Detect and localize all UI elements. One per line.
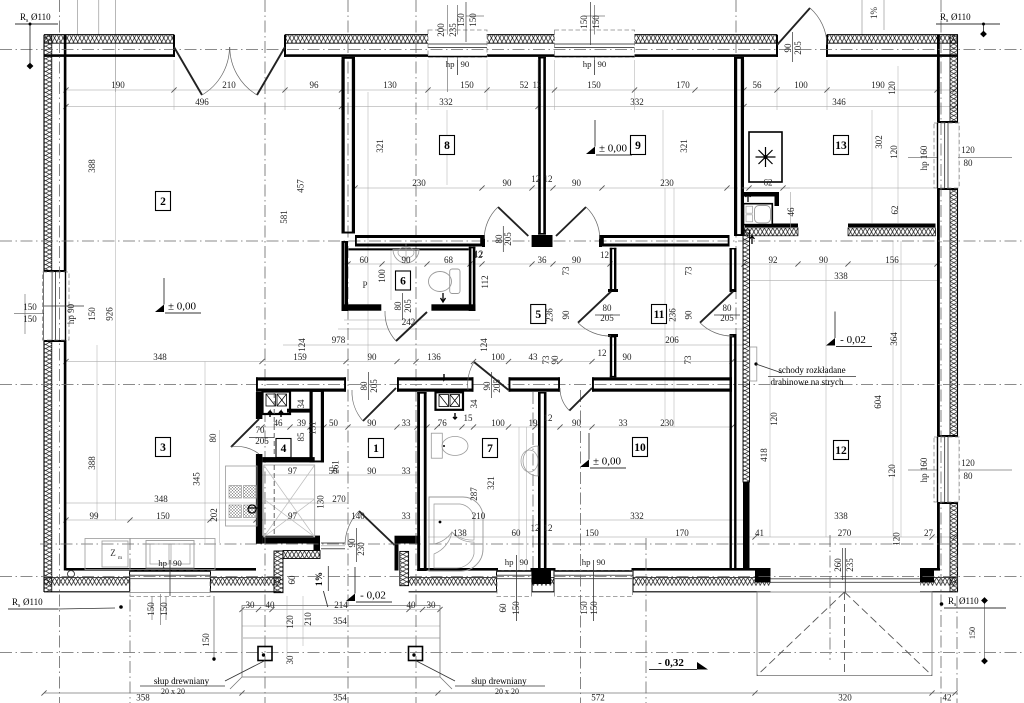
svg-text:100: 100 bbox=[794, 80, 808, 90]
svg-text:150: 150 bbox=[585, 528, 599, 538]
svg-text:Z: Z bbox=[110, 548, 116, 558]
svg-text:40: 40 bbox=[266, 600, 276, 610]
svg-text:242: 242 bbox=[402, 317, 416, 327]
svg-text:205: 205 bbox=[403, 299, 413, 313]
svg-text:100: 100 bbox=[377, 269, 387, 283]
svg-text:Ø110: Ø110 bbox=[31, 12, 51, 22]
svg-text:99: 99 bbox=[90, 511, 100, 521]
svg-text:150: 150 bbox=[579, 601, 589, 615]
svg-text:205: 205 bbox=[600, 313, 614, 323]
svg-text:205: 205 bbox=[793, 41, 803, 55]
svg-text:± 0,00: ± 0,00 bbox=[168, 301, 197, 313]
svg-text:332: 332 bbox=[630, 511, 644, 521]
svg-text:90: 90 bbox=[173, 558, 182, 568]
svg-text:205: 205 bbox=[720, 313, 734, 323]
svg-text:62: 62 bbox=[764, 178, 773, 188]
svg-text:321: 321 bbox=[375, 139, 385, 153]
svg-text:12: 12 bbox=[544, 413, 553, 423]
svg-text:120: 120 bbox=[892, 532, 902, 546]
svg-text:97: 97 bbox=[288, 511, 298, 521]
svg-text:hp: hp bbox=[446, 59, 455, 69]
svg-text:90: 90 bbox=[520, 557, 529, 567]
svg-text:90: 90 bbox=[367, 418, 377, 428]
svg-text:364: 364 bbox=[889, 332, 899, 346]
svg-text:52: 52 bbox=[520, 80, 529, 90]
svg-text:138: 138 bbox=[453, 528, 467, 538]
svg-text:90: 90 bbox=[572, 255, 582, 265]
svg-text:150: 150 bbox=[460, 80, 474, 90]
svg-text:60: 60 bbox=[512, 528, 522, 538]
svg-text:96: 96 bbox=[310, 80, 320, 90]
svg-text:30: 30 bbox=[285, 655, 295, 665]
svg-text:90: 90 bbox=[461, 59, 470, 69]
svg-text:236: 236 bbox=[668, 308, 678, 322]
svg-text:345: 345 bbox=[192, 472, 202, 486]
svg-text:90: 90 bbox=[561, 310, 571, 320]
svg-text:205: 205 bbox=[369, 379, 379, 393]
svg-text:338: 338 bbox=[834, 511, 848, 521]
svg-text:12: 12 bbox=[474, 249, 483, 259]
svg-text:39: 39 bbox=[297, 418, 307, 428]
svg-text:33: 33 bbox=[402, 418, 412, 428]
svg-text:42: 42 bbox=[943, 693, 952, 703]
svg-text:131: 131 bbox=[307, 421, 317, 435]
svg-text:321: 321 bbox=[679, 139, 689, 153]
svg-text:170: 170 bbox=[676, 80, 690, 90]
svg-text:130: 130 bbox=[315, 495, 325, 509]
svg-text:346: 346 bbox=[832, 97, 846, 107]
svg-text:270: 270 bbox=[838, 528, 852, 538]
svg-text:50: 50 bbox=[329, 418, 339, 428]
svg-text:90: 90 bbox=[503, 178, 513, 188]
svg-text:hp: hp bbox=[158, 558, 167, 568]
svg-text:68: 68 bbox=[444, 255, 454, 265]
svg-text:12: 12 bbox=[598, 348, 607, 358]
svg-text:± 0,00: ± 0,00 bbox=[599, 143, 628, 155]
svg-text:3: 3 bbox=[160, 442, 166, 454]
svg-text:12: 12 bbox=[544, 523, 553, 533]
svg-text:12: 12 bbox=[600, 250, 609, 260]
svg-text:8: 8 bbox=[444, 140, 450, 152]
svg-text:112: 112 bbox=[480, 275, 490, 288]
svg-text:41: 41 bbox=[755, 528, 764, 538]
svg-text:150: 150 bbox=[591, 15, 601, 29]
svg-text:90: 90 bbox=[597, 557, 606, 567]
svg-text:33: 33 bbox=[402, 466, 412, 476]
svg-text:150: 150 bbox=[146, 602, 156, 616]
svg-text:210: 210 bbox=[222, 80, 236, 90]
svg-text:332: 332 bbox=[439, 97, 453, 107]
svg-text:130: 130 bbox=[383, 80, 397, 90]
svg-text:150: 150 bbox=[468, 13, 478, 27]
svg-text:170: 170 bbox=[675, 528, 689, 538]
svg-text:1%: 1% bbox=[315, 572, 325, 586]
svg-text:205: 205 bbox=[492, 379, 502, 393]
svg-text:56: 56 bbox=[753, 80, 763, 90]
svg-text:270: 270 bbox=[332, 494, 346, 504]
svg-text:85: 85 bbox=[296, 432, 306, 442]
svg-text:33: 33 bbox=[619, 418, 629, 428]
svg-text:100: 100 bbox=[491, 418, 505, 428]
svg-text:15: 15 bbox=[464, 413, 474, 423]
svg-text:457: 457 bbox=[296, 179, 306, 193]
svg-text:388: 388 bbox=[87, 159, 97, 173]
svg-text:120: 120 bbox=[961, 458, 975, 468]
svg-text:205: 205 bbox=[503, 232, 513, 246]
svg-text:1%: 1% bbox=[869, 7, 879, 20]
svg-text:73: 73 bbox=[561, 266, 571, 276]
svg-text:hp: hp bbox=[505, 557, 514, 567]
svg-text:124: 124 bbox=[479, 338, 489, 352]
svg-text:120: 120 bbox=[769, 412, 779, 426]
svg-text:150: 150 bbox=[23, 314, 37, 324]
svg-text:34: 34 bbox=[296, 399, 306, 409]
svg-text:4: 4 bbox=[281, 443, 287, 455]
svg-text:150: 150 bbox=[968, 627, 977, 639]
svg-text:120: 120 bbox=[961, 145, 975, 155]
svg-text:60: 60 bbox=[498, 603, 508, 613]
svg-text:214: 214 bbox=[334, 600, 348, 610]
svg-text:150: 150 bbox=[23, 302, 37, 312]
svg-text:27: 27 bbox=[924, 528, 934, 538]
svg-text:190: 190 bbox=[871, 80, 885, 90]
svg-text:73: 73 bbox=[684, 266, 694, 276]
svg-text:30: 30 bbox=[427, 600, 437, 610]
svg-text:354: 354 bbox=[333, 616, 347, 626]
svg-text:496: 496 bbox=[195, 97, 209, 107]
svg-text:7: 7 bbox=[487, 443, 493, 455]
svg-text:190: 190 bbox=[111, 80, 125, 90]
svg-text:11: 11 bbox=[654, 309, 665, 321]
svg-text:354: 354 bbox=[333, 693, 347, 703]
svg-text:348: 348 bbox=[153, 352, 167, 362]
svg-text:418: 418 bbox=[759, 448, 769, 462]
svg-text:90: 90 bbox=[368, 352, 378, 362]
svg-text:210: 210 bbox=[303, 612, 313, 626]
svg-text:13: 13 bbox=[835, 140, 847, 152]
svg-text:± 0,00: ± 0,00 bbox=[593, 456, 622, 468]
svg-text:80: 80 bbox=[359, 381, 369, 391]
svg-text:150: 150 bbox=[201, 633, 211, 647]
svg-text:150: 150 bbox=[579, 15, 589, 29]
svg-text:P: P bbox=[362, 280, 367, 290]
svg-text:604: 604 bbox=[873, 395, 883, 409]
svg-text:100: 100 bbox=[491, 352, 505, 362]
svg-text:36: 36 bbox=[538, 255, 548, 265]
svg-text:80: 80 bbox=[393, 301, 403, 311]
svg-text:926: 926 bbox=[105, 307, 115, 321]
svg-text:92: 92 bbox=[769, 255, 778, 265]
svg-text:Ø110: Ø110 bbox=[951, 12, 971, 22]
svg-text:388: 388 bbox=[87, 456, 97, 470]
svg-text:20 x 20: 20 x 20 bbox=[495, 687, 519, 696]
svg-text:150: 150 bbox=[589, 601, 599, 615]
svg-text:320: 320 bbox=[838, 693, 852, 703]
svg-text:2: 2 bbox=[160, 196, 166, 208]
svg-text:348: 348 bbox=[154, 494, 168, 504]
svg-text:76: 76 bbox=[438, 418, 448, 428]
svg-text:332: 332 bbox=[630, 97, 644, 107]
svg-text:60: 60 bbox=[287, 575, 297, 585]
svg-text:90: 90 bbox=[598, 59, 607, 69]
svg-text:150: 150 bbox=[456, 13, 466, 27]
svg-text:338: 338 bbox=[834, 271, 848, 281]
svg-text:43: 43 bbox=[529, 352, 539, 362]
svg-text:230: 230 bbox=[660, 178, 674, 188]
svg-text:60: 60 bbox=[360, 255, 370, 265]
svg-text:80: 80 bbox=[723, 303, 733, 313]
svg-text:156: 156 bbox=[885, 255, 899, 265]
svg-text:90: 90 bbox=[367, 466, 377, 476]
svg-text:90: 90 bbox=[572, 418, 582, 428]
svg-text:12: 12 bbox=[835, 445, 847, 457]
svg-text:90: 90 bbox=[684, 310, 694, 320]
svg-text:150: 150 bbox=[159, 602, 169, 616]
svg-text:581: 581 bbox=[279, 210, 289, 224]
svg-text:hp 90: hp 90 bbox=[66, 303, 76, 324]
svg-text:80: 80 bbox=[208, 433, 218, 443]
svg-text:302: 302 bbox=[874, 135, 884, 149]
svg-text:287: 287 bbox=[469, 487, 479, 501]
svg-text:Ø110: Ø110 bbox=[23, 597, 43, 607]
svg-text:120: 120 bbox=[889, 145, 899, 159]
svg-text:140: 140 bbox=[351, 511, 365, 521]
svg-text:358: 358 bbox=[136, 693, 150, 703]
svg-text:235: 235 bbox=[845, 558, 855, 572]
svg-text:62: 62 bbox=[890, 206, 900, 215]
svg-text:20 x 20: 20 x 20 bbox=[161, 687, 185, 696]
svg-text:210: 210 bbox=[472, 511, 486, 521]
svg-text:120: 120 bbox=[887, 81, 897, 95]
svg-text:- 0,32: - 0,32 bbox=[658, 657, 684, 669]
svg-text:1: 1 bbox=[373, 443, 379, 455]
svg-text:12: 12 bbox=[533, 80, 542, 90]
svg-text:30: 30 bbox=[246, 600, 256, 610]
svg-text:159: 159 bbox=[293, 352, 307, 362]
svg-text:80: 80 bbox=[964, 158, 974, 168]
svg-text:150: 150 bbox=[156, 511, 170, 521]
svg-text:40: 40 bbox=[407, 600, 417, 610]
svg-text:Ø110: Ø110 bbox=[959, 596, 979, 606]
svg-text:230: 230 bbox=[660, 418, 674, 428]
svg-text:73: 73 bbox=[683, 355, 693, 365]
svg-text:321: 321 bbox=[486, 476, 496, 490]
svg-text:hp: hp bbox=[583, 59, 592, 69]
svg-text:124: 124 bbox=[297, 338, 307, 352]
svg-text:150: 150 bbox=[87, 307, 97, 321]
svg-text:46: 46 bbox=[274, 418, 284, 428]
svg-text:80: 80 bbox=[603, 303, 613, 313]
svg-text:97: 97 bbox=[288, 466, 298, 476]
svg-text:- 0,02: - 0,02 bbox=[840, 334, 866, 346]
svg-text:słup drewniany: słup drewniany bbox=[154, 676, 210, 686]
svg-text:90: 90 bbox=[402, 255, 412, 265]
svg-text:5: 5 bbox=[535, 309, 541, 321]
svg-text:230: 230 bbox=[356, 542, 366, 556]
svg-text:46: 46 bbox=[786, 207, 796, 217]
svg-text:- 0,02: - 0,02 bbox=[360, 590, 386, 602]
svg-text:150: 150 bbox=[587, 80, 601, 90]
svg-text:90: 90 bbox=[783, 43, 793, 53]
svg-text:120: 120 bbox=[887, 464, 897, 478]
svg-text:230: 230 bbox=[412, 178, 426, 188]
svg-text:150: 150 bbox=[511, 601, 521, 615]
svg-text:200: 200 bbox=[436, 23, 446, 37]
svg-text:978: 978 bbox=[332, 335, 346, 345]
svg-text:12: 12 bbox=[531, 174, 540, 184]
svg-text:hp: hp bbox=[582, 557, 591, 567]
svg-text:12: 12 bbox=[531, 523, 540, 533]
svg-text:drabinowe na strych: drabinowe na strych bbox=[771, 377, 844, 387]
svg-text:70: 70 bbox=[256, 425, 266, 435]
svg-text:19: 19 bbox=[529, 418, 539, 428]
svg-text:34: 34 bbox=[469, 399, 479, 409]
svg-text:80: 80 bbox=[964, 471, 974, 481]
svg-text:50: 50 bbox=[329, 466, 339, 476]
svg-text:10: 10 bbox=[634, 442, 646, 454]
svg-text:słup drewniany: słup drewniany bbox=[471, 676, 527, 686]
svg-text:572: 572 bbox=[591, 693, 605, 703]
svg-text:m: m bbox=[118, 555, 123, 561]
svg-text:90: 90 bbox=[550, 355, 560, 365]
svg-text:120: 120 bbox=[285, 615, 295, 629]
svg-text:6: 6 bbox=[400, 276, 406, 288]
svg-text:90: 90 bbox=[572, 178, 582, 188]
svg-text:9: 9 bbox=[635, 140, 641, 152]
svg-text:hp 160: hp 160 bbox=[919, 145, 929, 170]
svg-text:33: 33 bbox=[402, 511, 412, 521]
svg-text:schody rozkładane: schody rozkładane bbox=[778, 365, 845, 375]
svg-text:206: 206 bbox=[665, 335, 679, 345]
svg-text:260: 260 bbox=[833, 558, 843, 572]
svg-text:136: 136 bbox=[427, 352, 441, 362]
svg-text:hp 160: hp 160 bbox=[919, 457, 929, 482]
svg-text:90: 90 bbox=[819, 255, 829, 265]
svg-text:12: 12 bbox=[544, 174, 553, 184]
svg-text:90: 90 bbox=[623, 352, 633, 362]
svg-text:90: 90 bbox=[482, 381, 492, 391]
svg-text:202: 202 bbox=[209, 508, 219, 522]
